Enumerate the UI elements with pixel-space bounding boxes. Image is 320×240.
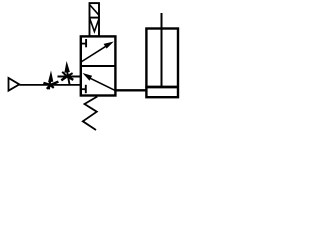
throttle valve star 2 [61, 61, 73, 85]
wire stub line upper left port [58, 76, 81, 78]
piston rod [161, 13, 163, 87]
valve body 3/2 [81, 36, 116, 95]
return spring [83, 97, 98, 131]
cylinder piston [145, 86, 179, 89]
wire pipe from triangle to valve left port [19, 84, 81, 86]
top cell arrow [81, 45, 108, 62]
pilot box divider [90, 17, 100, 19]
valve middle divider [80, 65, 116, 67]
pilot solenoid box [90, 3, 100, 36]
wire pipe valve to cylinder [116, 89, 148, 91]
blocked port T bottom cell [81, 88, 86, 90]
pilot V triangle [90, 19, 99, 32]
cylinder body [146, 29, 178, 98]
solenoid diagonal [90, 5, 99, 15]
throttle valve star 1 [43, 71, 58, 90]
bottom cell arrow [89, 78, 115, 91]
blocked port T top cell [81, 43, 86, 45]
exhaust triangle [9, 78, 20, 91]
